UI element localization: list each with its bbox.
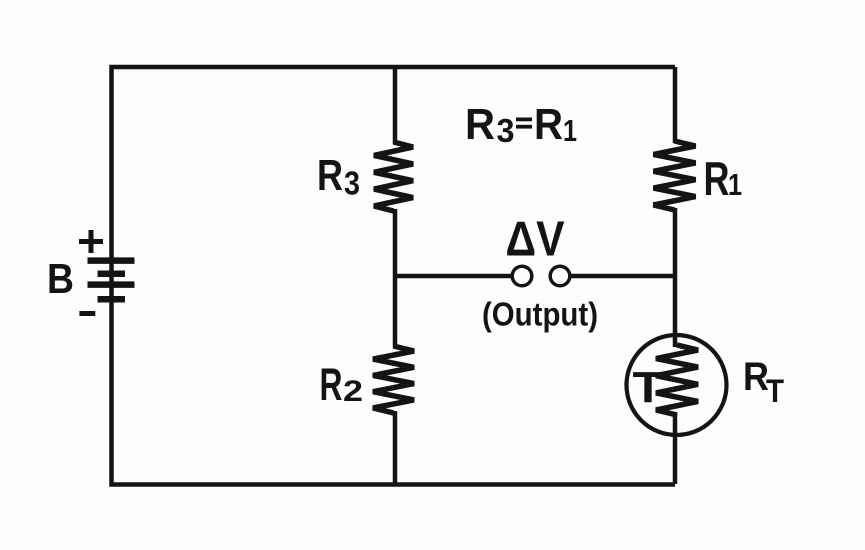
wire right branch bottom segment (673, 413, 678, 484)
wire right branch top segment (673, 67, 678, 143)
svg-text:R: R (534, 100, 563, 149)
wire middle branch bottom segment (393, 411, 398, 484)
resistor R1 (654, 141, 696, 210)
wire output left segment (395, 274, 512, 279)
battery plus sign (79, 230, 103, 253)
wire outer loop frame (top, left, bottom sides) (112, 67, 676, 485)
output terminal left (512, 266, 532, 286)
output terminal right (550, 266, 570, 286)
svg-text:3: 3 (497, 112, 515, 149)
svg-text:R: R (317, 151, 343, 200)
thermistor RT zigzag (656, 345, 698, 415)
battery B (88, 261, 135, 300)
wire output right segment (570, 274, 675, 279)
svg-text:1: 1 (728, 167, 742, 202)
thermistor RT circle (627, 335, 727, 435)
svg-text:B: B (47, 255, 74, 302)
resistor R3 (374, 142, 413, 211)
svg-text:T: T (633, 363, 664, 412)
svg-text:T: T (766, 373, 784, 409)
battery minus sign (79, 311, 95, 316)
svg-text:R: R (465, 100, 495, 149)
wire middle branch top segment (393, 67, 398, 144)
resistor R2 (373, 346, 414, 413)
svg-text:ΔV: ΔV (506, 212, 565, 267)
svg-text:3: 3 (344, 165, 360, 202)
svg-text:(Output): (Output) (482, 296, 598, 333)
svg-text:2: 2 (343, 375, 363, 408)
svg-text:R: R (704, 152, 730, 205)
svg-text:1: 1 (563, 113, 577, 148)
wire right branch mid segment (673, 208, 678, 347)
svg-text:R: R (320, 359, 343, 410)
wire middle branch mid segment (393, 209, 398, 348)
